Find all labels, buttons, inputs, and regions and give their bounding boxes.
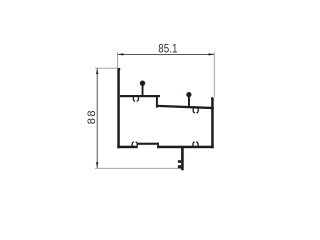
profile right wall bbox=[211, 97, 214, 148]
extension line left (top of profile, x=117.6) bbox=[117, 52, 119, 68]
hook pair 1 below top web bbox=[133, 97, 138, 101]
dimension text 85.1 bbox=[158, 43, 177, 56]
profile left wall bbox=[117, 68, 120, 148]
dimension text 88 (rotated) bbox=[86, 109, 98, 124]
extension line top of 88 dimension bbox=[95, 67, 119, 69]
profile bottom web right part bbox=[157, 146, 214, 149]
extension line right (x=214.3) bbox=[213, 52, 215, 97]
arrowhead bottom of 88 bbox=[96, 162, 98, 168]
bottom tongue stem bbox=[181, 148, 184, 170]
arrowhead top of 88 bbox=[96, 68, 98, 74]
screw boss pin 2 bbox=[186, 92, 191, 108]
dimension line 85.1 bbox=[118, 53, 215, 55]
profile bottom web left part bbox=[117, 146, 138, 149]
arrowhead left of 85.1 bbox=[118, 53, 124, 55]
screw boss pin 1 bbox=[140, 81, 145, 96]
profile bottom raised lip bbox=[137, 143, 159, 145]
profile top web bbox=[120, 95, 160, 97]
dimension line 88 bbox=[96, 68, 98, 167]
hook pair 4 above bottom web bbox=[193, 142, 198, 146]
profile lower web (sloped) bbox=[157, 105, 214, 110]
svg-text:88: 88 bbox=[86, 109, 98, 124]
profile lip right step bbox=[157, 143, 159, 149]
hook pair 3 above bottom web bbox=[132, 142, 137, 146]
bottom tongue tooth 2 bbox=[178, 165, 181, 168]
extension line bottom of 88 dimension bbox=[95, 167, 178, 169]
arrowhead right of 85.1 bbox=[209, 53, 215, 55]
bottom tongue tooth 1 bbox=[178, 160, 181, 163]
hook pair 2 below lower web bbox=[193, 108, 198, 112]
profile step between webs bbox=[156, 95, 158, 108]
